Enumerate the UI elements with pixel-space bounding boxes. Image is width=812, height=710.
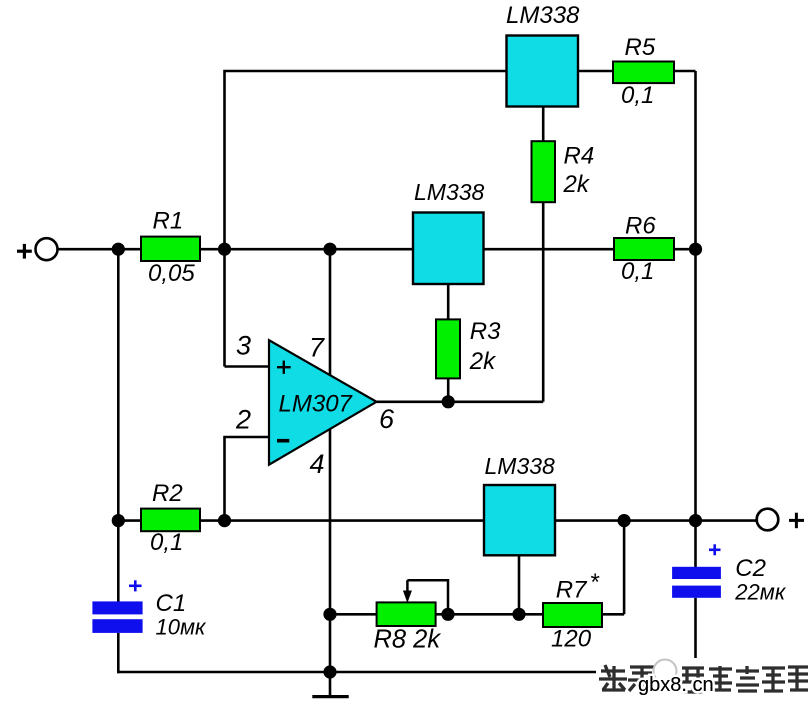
capacitor C1 [92, 601, 142, 614]
junction: R6 / right rail [689, 243, 702, 256]
svg-text:10мк: 10мк [156, 615, 208, 640]
op-amp - input mark [277, 439, 289, 443]
input terminal [36, 238, 58, 260]
svg-text:6: 6 [379, 404, 395, 434]
wire: left vertical x=118 upper [117, 249, 120, 601]
svg-text:LM338: LM338 [414, 179, 485, 205]
op-amp U4 LM307 [269, 340, 377, 465]
resistor R5 [613, 62, 674, 84]
junction: bottom LM338 adj [512, 608, 525, 621]
junction: output net / C1 branch [112, 514, 125, 527]
capacitor C2 [672, 567, 721, 579]
wire: right rail x=695.5 upper [694, 71, 697, 567]
wire: middle LM338 adj pin down to R3 [447, 284, 450, 402]
regulator U3 LM338 bottom [484, 485, 555, 555]
svg-text:C2: C2 [735, 555, 766, 582]
junction: R8 wiper tie [441, 608, 454, 621]
junction: output net / right rail [689, 514, 702, 527]
op-amp + input mark [277, 366, 291, 368]
svg-text:C1: C1 [156, 590, 187, 617]
junction: op-amp output / R3 [442, 395, 455, 408]
svg-text:*: * [591, 569, 600, 596]
output terminal [757, 509, 779, 531]
svg-text:R6: R6 [625, 213, 656, 240]
resistor R2 [141, 509, 200, 532]
svg-text:2k: 2k [469, 348, 497, 375]
svg-text:LM338: LM338 [506, 2, 580, 29]
junction: R8 net / ground branch [323, 608, 336, 621]
svg-text:R1: R1 [153, 208, 184, 235]
wire: pin7/pin4 vertical x=330 [329, 249, 332, 672]
svg-text:7: 7 [309, 332, 325, 362]
wire: bottom rail y=672 [117, 671, 696, 674]
svg-text:gbx8. cn: gbx8. cn [638, 674, 714, 696]
svg-text:22мк: 22мк [734, 580, 787, 605]
resistor R3 [436, 319, 460, 378]
watermark [596, 658, 812, 698]
svg-text:4: 4 [310, 449, 325, 479]
regulator U1 LM338 top [507, 36, 579, 107]
wire: right rail x=695.5 below C2 [694, 598, 697, 673]
wire: main positive rail y=249 [57, 248, 696, 251]
svg-text:R5: R5 [625, 34, 656, 61]
junction: output net / R7 branch [618, 514, 631, 527]
junction: main rail / pin7 branch [323, 243, 336, 256]
svg-text:R2: R2 [152, 480, 183, 507]
wire: R8/R7 net y=613.8 [330, 613, 624, 616]
wire: output net y=520.6 (R2 to output terminal) [118, 519, 756, 522]
svg-text:R8 2k: R8 2k [374, 626, 442, 654]
junction: R1 right / top rail / pin3 branch [218, 243, 231, 256]
svg-text:R4: R4 [564, 143, 595, 170]
resistor R7 [543, 603, 602, 627]
svg-text:R7: R7 [556, 576, 588, 603]
svg-text:2k: 2k [563, 171, 591, 198]
svg-text:0,05: 0,05 [148, 260, 195, 287]
regulator U2 LM338 middle [413, 213, 484, 285]
junction: output net / pin2 branch [218, 514, 231, 527]
junction: input rail / left branch [112, 243, 125, 256]
resistor R6 [614, 238, 674, 260]
svg-text:0,1: 0,1 [621, 82, 654, 109]
svg-text:3: 3 [236, 330, 251, 360]
wire: left vertical x=118 below C1 [117, 633, 120, 674]
svg-text:LM307: LM307 [279, 390, 354, 417]
svg-text:LM338: LM338 [485, 453, 556, 479]
svg-text:120: 120 [551, 626, 592, 653]
svg-text:0,1: 0,1 [621, 258, 654, 285]
wire: op-amp output y=402 [377, 400, 544, 403]
svg-text:0,1: 0,1 [150, 529, 183, 556]
junction: ground rail [323, 665, 336, 678]
wire: top rail y=71 [225, 71, 696, 367]
wiper of R8 [407, 580, 448, 614]
wire: R4 vertical x=543 [542, 107, 545, 402]
ground [329, 672, 332, 697]
resistor R4 [532, 141, 556, 202]
svg-text:2: 2 [235, 405, 251, 435]
wire: bottom LM338 adj pin [518, 555, 521, 614]
svg-text:R3: R3 [470, 318, 501, 345]
wire: op-amp pin 3 input from node A [225, 365, 271, 368]
resistor R1 [141, 237, 200, 261]
wire: R7 right side up to output net [623, 521, 626, 615]
potentiometer R8 [377, 602, 436, 626]
wire: op-amp pin 2 input down to R2 net [225, 437, 271, 521]
